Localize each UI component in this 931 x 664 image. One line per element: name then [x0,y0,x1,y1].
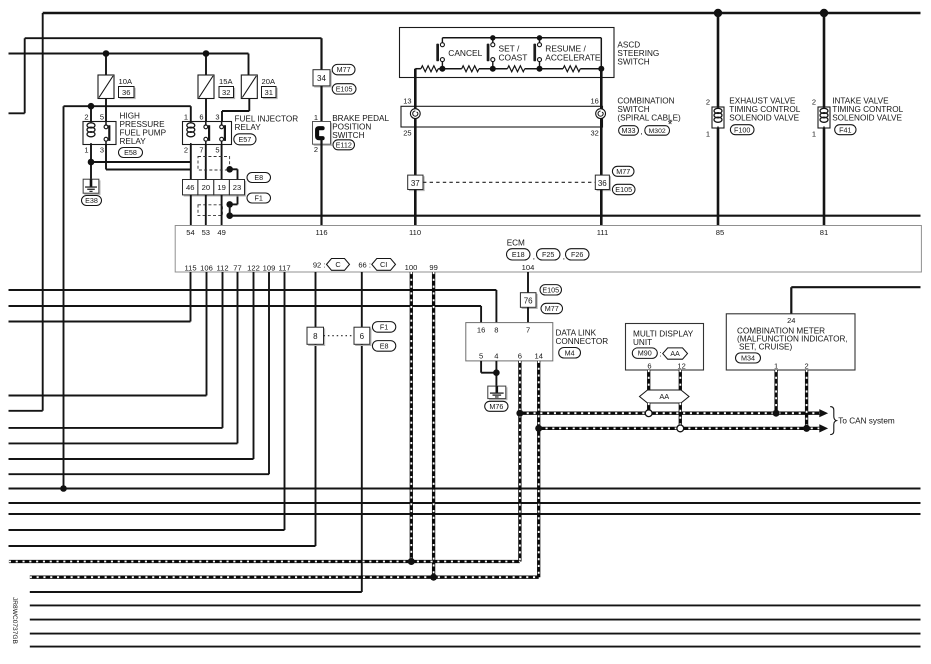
svg-text:3: 3 [100,146,104,155]
svg-text:2: 2 [812,98,816,107]
svg-text:110: 110 [409,228,421,237]
svg-text:CI: CI [380,260,387,269]
svg-text:,: , [563,252,565,261]
svg-text:COAST: COAST [499,53,528,63]
svg-text:31: 31 [264,88,272,97]
svg-text:10A: 10A [119,77,133,86]
svg-text:E105: E105 [615,185,632,194]
svg-text:1: 1 [706,129,710,138]
svg-text:8: 8 [313,332,318,341]
svg-text:112: 112 [216,263,228,272]
svg-text:SOLENOID VALVE: SOLENOID VALVE [729,114,799,123]
svg-text:7: 7 [199,146,203,155]
svg-text:8: 8 [494,326,498,335]
svg-text:3: 3 [215,113,219,122]
svg-text:1: 1 [774,361,778,370]
svg-text:49: 49 [217,228,225,237]
svg-text:1: 1 [84,146,88,155]
svg-text:2: 2 [314,145,318,154]
svg-text:20: 20 [202,183,210,192]
svg-text:F25: F25 [542,250,554,259]
svg-text:66 :: 66 : [358,260,371,269]
svg-text:C: C [335,260,341,269]
svg-text:6: 6 [518,351,522,360]
svg-text:117: 117 [278,263,290,272]
svg-text:M77: M77 [616,167,630,176]
svg-text:E105: E105 [336,84,353,93]
svg-text:E38: E38 [85,196,98,205]
svg-text:AA: AA [659,392,669,401]
svg-text:111: 111 [597,228,609,237]
svg-text:2: 2 [805,361,809,370]
svg-text:,: , [641,127,643,136]
svg-text:100: 100 [405,263,418,272]
svg-text:23: 23 [233,183,241,192]
svg-text:SWITCH: SWITCH [617,57,649,66]
svg-text:RELAY: RELAY [120,137,147,146]
svg-text:2: 2 [84,113,88,122]
svg-text:122: 122 [247,263,260,272]
svg-text:CANCEL: CANCEL [448,48,482,58]
svg-text:SWITCH: SWITCH [332,131,364,140]
svg-text:13: 13 [403,97,411,106]
svg-text:25: 25 [403,129,411,138]
svg-text:1: 1 [812,129,816,138]
svg-text:*: * [668,118,673,132]
svg-text:4: 4 [494,351,498,360]
svg-text:M33: M33 [622,126,636,135]
svg-text:JR8WC0737GB: JR8WC0737GB [11,597,18,645]
svg-text:32: 32 [591,129,599,138]
svg-text:1: 1 [184,113,188,122]
svg-text:CONNECTOR: CONNECTOR [556,337,609,346]
svg-text:E18: E18 [512,250,525,259]
svg-text:7: 7 [526,326,530,335]
svg-text:ACCELERATE: ACCELERATE [545,53,601,63]
svg-text:5: 5 [100,113,104,122]
svg-text:F100: F100 [734,125,750,134]
svg-text:104: 104 [522,263,535,272]
svg-text:20A: 20A [262,77,276,86]
svg-text:SOLENOID VALVE: SOLENOID VALVE [832,114,902,123]
svg-text:77: 77 [233,263,241,272]
svg-text:36: 36 [598,179,607,188]
svg-text:E8: E8 [380,341,389,350]
svg-text::: : [659,349,661,358]
svg-text:6: 6 [647,361,651,370]
svg-text:SET, CRUISE): SET, CRUISE) [739,342,792,351]
svg-text:E8: E8 [254,173,263,182]
svg-text:2: 2 [706,98,710,107]
svg-text:106: 106 [200,263,213,272]
svg-text:14: 14 [534,351,542,360]
svg-text:81: 81 [820,228,828,237]
svg-text:37: 37 [411,179,420,188]
svg-text:E112: E112 [336,140,352,149]
svg-text:24: 24 [787,316,795,325]
svg-text:16: 16 [591,97,599,106]
svg-text:AA: AA [670,351,680,358]
svg-text:ECM: ECM [507,239,525,248]
svg-text:15A: 15A [219,77,233,86]
svg-text:36: 36 [122,88,130,97]
svg-text:6: 6 [199,113,203,122]
svg-text:F1: F1 [255,194,263,203]
svg-text:To CAN system: To CAN system [838,417,895,426]
svg-text:E105: E105 [542,285,559,294]
svg-text:RELAY: RELAY [235,123,262,132]
svg-text:12: 12 [677,361,685,370]
svg-text:34: 34 [317,74,326,83]
svg-text:M34: M34 [741,354,755,363]
svg-text:54: 54 [186,228,194,237]
svg-text:F1: F1 [380,322,388,331]
svg-text:116: 116 [315,228,327,237]
svg-text:115: 115 [184,263,196,272]
svg-text:1: 1 [314,113,318,122]
svg-text:76: 76 [524,296,533,305]
svg-text:92 :: 92 : [313,260,326,269]
svg-text:2: 2 [184,146,188,155]
svg-text:46: 46 [186,183,194,192]
svg-text:109: 109 [263,263,276,272]
svg-text:32: 32 [222,88,230,97]
svg-text:M4: M4 [565,348,575,357]
svg-text:M77: M77 [545,304,559,313]
svg-text:E57: E57 [239,135,252,144]
svg-text:16: 16 [477,326,485,335]
svg-text:M76: M76 [489,402,503,411]
svg-text:6: 6 [360,332,365,341]
svg-text:85: 85 [716,228,724,237]
svg-text:F41: F41 [839,125,851,134]
svg-text:UNIT: UNIT [633,338,652,347]
svg-text:M77: M77 [337,65,351,74]
svg-text:5: 5 [215,146,219,155]
svg-text:M302: M302 [649,128,666,135]
svg-text:,: , [533,252,535,261]
svg-text:19: 19 [217,183,225,192]
svg-text:E58: E58 [124,148,137,157]
svg-text:99: 99 [429,263,437,272]
svg-text:M90: M90 [638,349,652,358]
svg-text:53: 53 [202,228,210,237]
svg-text:F26: F26 [571,250,583,259]
svg-text:5: 5 [479,351,483,360]
